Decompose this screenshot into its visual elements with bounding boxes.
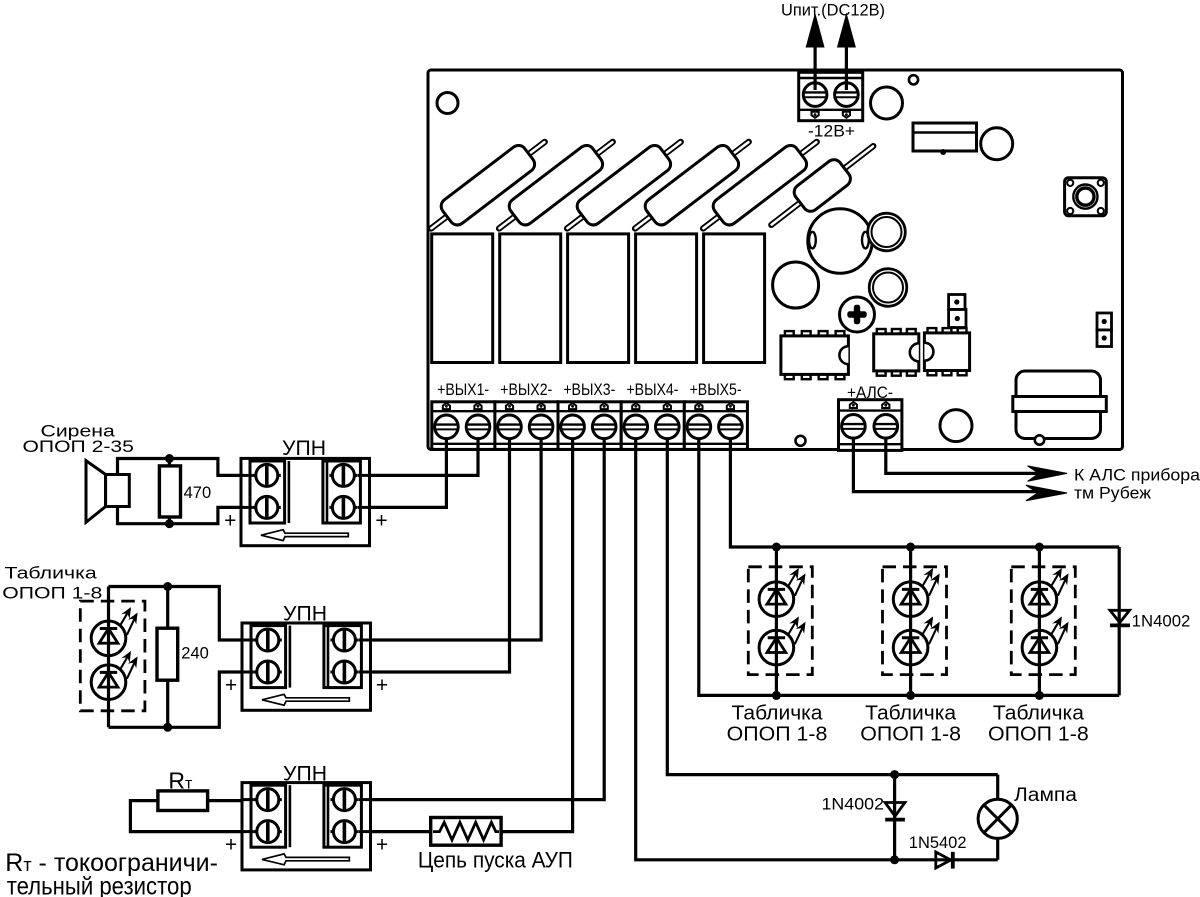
resistor R2 bbox=[490, 130, 622, 240]
svg-text:+: + bbox=[375, 509, 387, 532]
UPN unit 3 bbox=[242, 783, 371, 870]
transformer T1 bbox=[1016, 371, 1101, 439]
arrow to ALS device line2 bbox=[1026, 485, 1067, 501]
wire ALS- to arrow (K ALS pribora) bbox=[886, 438, 1040, 473]
LED VD2 bbox=[91, 651, 137, 700]
dashed box tablichka-left bbox=[80, 601, 145, 711]
LED VD1 bbox=[91, 607, 137, 656]
svg-text:1N4002: 1N4002 bbox=[822, 796, 885, 814]
arrow to ALS device line1 bbox=[1028, 466, 1067, 481]
svg-text:1N4002: 1N4002 bbox=[1132, 613, 1191, 631]
dashed box tablichka-right 3 bbox=[1011, 567, 1075, 675]
wire VYX1+ to UPN1 bottom-right bbox=[370, 438, 447, 507]
wire VYX3- to UPN3 top-right bbox=[371, 438, 605, 800]
siren loop top wire bbox=[118, 459, 253, 476]
IC U1 bbox=[785, 331, 794, 336]
capacitor C4 (ring) bbox=[869, 269, 907, 307]
svg-text:+: + bbox=[225, 674, 237, 697]
wire VYX2+ to UPN2 bottom-right bbox=[371, 438, 510, 672]
junction dots siren bbox=[165, 454, 174, 463]
PCB module board outline bbox=[428, 70, 1123, 450]
LED chain 2 bottom LED bbox=[893, 616, 939, 665]
wire VYX5+ to tablichka bottom rail bbox=[699, 438, 1119, 695]
svg-text:240: 240 bbox=[181, 645, 209, 663]
svg-text:470: 470 bbox=[184, 484, 212, 502]
svg-text:К АЛС прибора: К АЛС прибора bbox=[1074, 467, 1200, 485]
svg-text:тельный резистор: тельный резистор bbox=[7, 873, 192, 897]
tablichka-left loop bottom wire bbox=[109, 672, 253, 727]
svg-text:Табличка: Табличка bbox=[732, 703, 824, 725]
small hole bottom-left of ALS bbox=[796, 436, 806, 446]
wire VYX3+ to AUP resistor bbox=[501, 438, 572, 832]
wire VYX1- to UPN1 top-right bbox=[370, 438, 479, 475]
IC U2 bbox=[877, 329, 886, 334]
dashed box tablichka-right 2 bbox=[883, 567, 947, 675]
svg-text:+ВЫХ1-: +ВЫХ1- bbox=[437, 381, 489, 399]
svg-text:УПН: УПН bbox=[282, 437, 326, 460]
dashed box tablichka-right 1 bbox=[748, 567, 812, 675]
wire ALS+ to arrow (tm Rubezh) bbox=[853, 438, 1040, 492]
resistor 240 bbox=[157, 628, 178, 680]
svg-text:+: + bbox=[376, 834, 388, 857]
svg-text:+: + bbox=[225, 834, 237, 857]
svg-text:Цепь пуска АУП: Цепь пуска АУП bbox=[418, 848, 573, 873]
IC U3 bbox=[928, 328, 937, 333]
LED chain wire left bbox=[107, 587, 110, 728]
svg-text:+: + bbox=[376, 674, 388, 697]
svg-text:1N5402: 1N5402 bbox=[909, 834, 967, 852]
svg-text:+ВЫХ4-: +ВЫХ4- bbox=[626, 381, 678, 399]
jumper J2 bbox=[1097, 313, 1112, 330]
junction dots chain 3 bbox=[1035, 543, 1044, 552]
junction dots chain 1 bbox=[772, 543, 781, 552]
capacitor C5 bbox=[773, 262, 819, 308]
junction dots tablichka-left bbox=[163, 582, 172, 591]
UPN unit 1 bbox=[241, 458, 370, 545]
junction dots lamp circuit bbox=[890, 770, 899, 779]
Upit supply arrows bbox=[813, 40, 816, 90]
LED chain 3 top LED bbox=[1022, 568, 1068, 617]
LED chain 1 bottom LED bbox=[759, 616, 805, 665]
relay K3 bbox=[568, 234, 629, 363]
buzzer/capacitor big circle bbox=[808, 209, 872, 273]
capacitor C3 (ring) bbox=[868, 213, 906, 251]
svg-text:Табличка: Табличка bbox=[865, 703, 957, 725]
LED chain 2 top LED bbox=[893, 568, 939, 617]
ALS terminal block XT6 bbox=[839, 400, 902, 451]
svg-text:+ВЫХ5-: +ВЫХ5- bbox=[690, 381, 742, 399]
resistor 470 bbox=[159, 466, 180, 517]
LED chain 3 bottom LED bbox=[1022, 616, 1068, 665]
siren loop bottom wire bbox=[118, 507, 253, 524]
svg-text:ОПОП 2-35: ОПОП 2-35 bbox=[23, 437, 134, 456]
tablichka-left loop top wire bbox=[109, 587, 253, 641]
speaker (siren OPOP 2-35) bbox=[86, 461, 106, 523]
screw head bbox=[840, 297, 875, 332]
svg-text:Табличка: Табличка bbox=[5, 563, 98, 582]
diode 1N5402 bbox=[936, 852, 951, 868]
svg-text:ОПОП 1-8: ОПОП 1-8 bbox=[727, 724, 828, 746]
output terminal block XT4 (VYX4) bbox=[621, 402, 684, 450]
capacitor C6 bbox=[940, 410, 972, 442]
svg-text:ОПОП 1-8: ОПОП 1-8 bbox=[988, 724, 1089, 746]
relay K1 bbox=[432, 234, 493, 363]
junction dots chain 2 bbox=[906, 543, 915, 552]
mounting hole top-left bbox=[437, 93, 458, 114]
output terminal block XT2 (VYX2) bbox=[495, 402, 558, 450]
diode 1N4002 on right rail bbox=[1110, 610, 1130, 622]
resistor 240 leads bbox=[166, 587, 169, 629]
output terminal block XT1 (VYX1) bbox=[432, 402, 495, 450]
svg-text:-12В+: -12В+ bbox=[808, 122, 855, 141]
svg-text:+: + bbox=[224, 509, 236, 532]
LED chain 1 wire bbox=[775, 547, 778, 695]
UPN unit 2 bbox=[242, 623, 371, 710]
relay K5 bbox=[704, 234, 765, 363]
output terminal block XT3 (VYX3) bbox=[558, 402, 621, 450]
svg-text:тм Рубеж: тм Рубеж bbox=[1074, 485, 1151, 503]
LED chain 1 top LED bbox=[759, 568, 805, 617]
resistor R1 bbox=[422, 130, 554, 240]
svg-text:Табличка: Табличка bbox=[993, 703, 1085, 725]
power terminal block XT0 (-12B+) bbox=[799, 72, 863, 120]
relay K4 bbox=[636, 234, 697, 363]
relay block K6 bbox=[913, 123, 977, 151]
resistor 470 leads bbox=[168, 459, 171, 467]
diode 1N4002 (lamp circuit) bbox=[893, 775, 896, 860]
svg-text:УПН: УПН bbox=[283, 762, 327, 785]
svg-text:Лампа: Лампа bbox=[1014, 785, 1077, 806]
wire VYX4- to lamp top rail bbox=[667, 438, 997, 775]
resistor R5 bbox=[694, 130, 826, 240]
svg-text:+ВЫХ2-: +ВЫХ2- bbox=[500, 381, 552, 399]
wire VYX4+ to lamp bottom rail bbox=[636, 438, 998, 860]
relay K2 bbox=[500, 234, 561, 363]
lamp bbox=[996, 775, 999, 800]
capacitor C1 bbox=[871, 87, 903, 119]
diode VD6 bbox=[762, 134, 882, 237]
svg-text:УПН: УПН bbox=[283, 603, 327, 626]
wire VYX2- to UPN2 top-right bbox=[371, 438, 542, 640]
AUP start circuit resistor box bbox=[371, 830, 431, 833]
resistor R3 bbox=[558, 130, 690, 240]
capacitor C2 bbox=[981, 128, 1013, 160]
tablichka right rail with diode bbox=[1118, 547, 1121, 695]
push button SB1 bbox=[1065, 178, 1107, 216]
LED chain 3 wire bbox=[1038, 547, 1041, 695]
svg-text:Uпит.(DC12В): Uпит.(DC12В) bbox=[781, 2, 885, 20]
output terminal block XT5 (VYX5) bbox=[684, 402, 747, 450]
Rt resistor wires bbox=[208, 799, 252, 802]
svg-text:ОПОП 1-8: ОПОП 1-8 bbox=[2, 584, 102, 603]
resistor R4 bbox=[626, 130, 758, 240]
LED chain 2 wire bbox=[909, 547, 912, 695]
resistor Rt bbox=[158, 791, 208, 811]
wire VYX5- to tablichka top rail bbox=[730, 438, 1119, 547]
svg-text:+АЛС-: +АЛС- bbox=[847, 384, 893, 402]
svg-text:+ВЫХ3-: +ВЫХ3- bbox=[563, 381, 615, 399]
small hole top-right bbox=[909, 75, 918, 84]
svg-text:ОПОП 1-8: ОПОП 1-8 bbox=[860, 724, 961, 746]
jumper J1 bbox=[949, 295, 965, 310]
